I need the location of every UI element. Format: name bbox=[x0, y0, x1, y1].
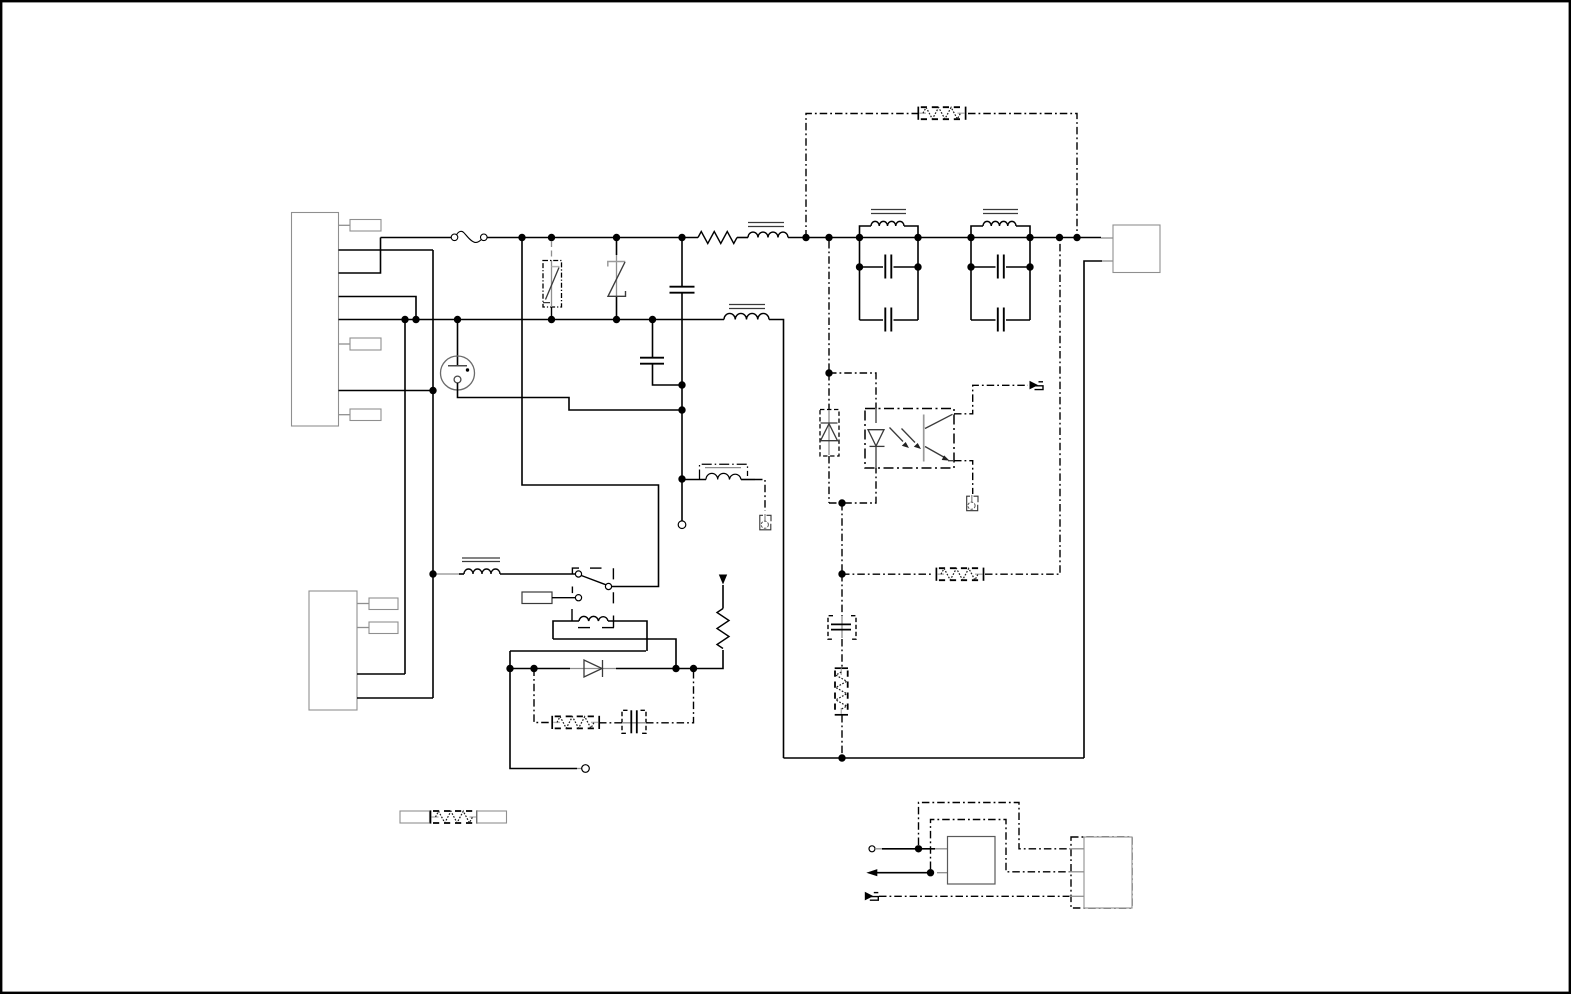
node dot on bottom rail bbox=[838, 754, 845, 761]
wire vertical x510 down to terminal bbox=[510, 651, 577, 769]
node dot opto branch bbox=[825, 369, 832, 376]
inductor L3 (relay feed, with core) bbox=[436, 558, 576, 574]
module M1 box bbox=[948, 837, 996, 885]
dash-dot bypass (top) bbox=[806, 114, 919, 238]
node dots on L bus bbox=[518, 234, 1080, 241]
U1 light arrows bbox=[890, 428, 922, 450]
dash-dot path A (E3 node loop to CN4 pin1) bbox=[919, 803, 1071, 849]
wire L bus (top line y=237.5) bbox=[487, 237, 698, 239]
resistor R1 (in dashed box, top bypass) bbox=[918, 107, 965, 120]
dash-dot U1 emitter to pin symbol bbox=[954, 461, 973, 494]
resistor (inline on L bus) bbox=[698, 232, 737, 244]
connector CN2 (lower-left block) bbox=[309, 591, 357, 710]
capacitor C2 (N to node) bbox=[640, 320, 682, 386]
plug arrow symbol P4 (bottom left) bbox=[865, 892, 879, 901]
CN1 pin 8 tab bbox=[339, 409, 382, 421]
plug arrow symbol P2 bbox=[1030, 381, 1044, 390]
relay K1 coil label box bbox=[522, 592, 552, 604]
resistor R2 (vertical, arrow fed) bbox=[717, 575, 729, 649]
wire CN2 pin3 to vertical x405 bbox=[357, 673, 405, 675]
node dot relay feed at x433 bbox=[429, 570, 436, 577]
wire N bus (y=319.5) bbox=[339, 319, 725, 321]
snubber branch: dash-dot from diode line bbox=[534, 669, 550, 723]
resistor R3 (in dashed box) bbox=[552, 716, 599, 729]
optocoupler U1 box bbox=[865, 409, 954, 469]
dash-dot bypass (top, right half) bbox=[968, 114, 1077, 238]
CN1 pin 1 tab bbox=[339, 220, 382, 232]
resistor R4 (in dashed box) with dash-dot link to x1060 bbox=[842, 241, 1060, 581]
arrow lead (points left) bbox=[866, 869, 930, 876]
gray stubs into module M1 bbox=[935, 849, 948, 873]
dash-dot node down to R4 junction bbox=[841, 503, 843, 574]
dash-dot path B (arrow node loop to CN4 pin2) bbox=[931, 820, 1071, 872]
wire CN3 pin2 down right side to bottom rail bbox=[1084, 261, 1102, 758]
node dots on N bus bbox=[401, 316, 656, 323]
TVS Z1 (bidirectional zener) bbox=[608, 238, 626, 320]
diode D1 line bbox=[510, 650, 723, 677]
wire CN1 pin4 down to N bus bbox=[339, 297, 417, 320]
varistor RV1 bbox=[543, 241, 562, 320]
wire vertical x405 (N bus to CN2) bbox=[404, 320, 406, 675]
wire E3 to module M1 bbox=[882, 848, 935, 850]
wire CN1 pin2 to node x433 bbox=[339, 249, 434, 251]
isolated resistor R6 (bottom left) bbox=[400, 810, 507, 823]
connector pin symbol P1 (below T1) bbox=[760, 514, 771, 530]
inductor L2 (N line, with core) bbox=[724, 305, 769, 320]
wire CN1 pin3 up to line switch feed bbox=[339, 238, 381, 274]
capacitor C1 (X-cap on bus) bbox=[670, 238, 695, 522]
dash-dot U1 collector to plug arrow bbox=[954, 385, 1028, 414]
filter FL2 capacitors bbox=[967, 238, 1033, 332]
dash link R3 to C3 bbox=[599, 722, 622, 724]
filter FL1 choke (over L bus) bbox=[860, 210, 919, 238]
capacitor C4 (in dashed box) bbox=[828, 616, 856, 640]
relay K1 contact bbox=[572, 568, 613, 613]
node dot CN1 pin7 at x433 bbox=[429, 387, 436, 394]
transformer T1 (current transformer on C1 line) bbox=[682, 464, 765, 511]
filter FL1 capacitors bbox=[856, 238, 922, 332]
wire vertical x433 (CN1 pin2 down to CN2) bbox=[432, 250, 434, 698]
filter FL2 choke (over L bus) bbox=[971, 210, 1030, 238]
bottom rail bbox=[784, 757, 1085, 759]
dash-dot branch over to opto LED bbox=[829, 373, 876, 409]
zener Z2 (in dashed box) bbox=[820, 373, 839, 503]
dash-dot path C (P4 to CN4 pin3) bbox=[879, 895, 1070, 897]
dash-dot node down to C4 bbox=[841, 574, 843, 616]
relay K1 coil and body bbox=[510, 609, 676, 669]
wire from L2 down right side to bottom rail bbox=[769, 320, 784, 759]
connector CN1 (upper-left block) bbox=[292, 213, 339, 427]
dash-dot C4 to R5 bbox=[841, 639, 843, 668]
wire L bus between resistor and L1 bbox=[737, 237, 748, 239]
CN2 pin 1 tab bbox=[357, 598, 398, 610]
wire L bus right of L1 bbox=[788, 237, 1101, 239]
U1 phototransistor bbox=[924, 414, 954, 461]
terminal E2 (open circle) bbox=[577, 765, 589, 773]
capacitor C3 (in dashed box) bbox=[622, 710, 648, 733]
dash-dot R5 to bottom rail bbox=[841, 715, 843, 758]
wire vertical x522 (L bus down, over to relay contact) bbox=[522, 238, 659, 587]
resistor R5 (vertical, in dashed box) bbox=[835, 668, 848, 715]
bottom sub-circuit: terminal E3 bbox=[869, 846, 882, 852]
dash-dot lower opto chain node bbox=[829, 468, 876, 503]
node dots bottom sub-circuit bbox=[915, 845, 934, 876]
connector CN4 (bottom right, dash-dot outline) bbox=[1069, 837, 1132, 908]
connector CN3 (right of L bus) bbox=[1101, 225, 1160, 273]
U1 LED bbox=[868, 409, 885, 469]
neon lamp NE1 bbox=[441, 320, 683, 411]
wire CN1 pin7 to node x433 bbox=[339, 390, 434, 392]
connector pin symbol P3 bbox=[967, 495, 978, 511]
terminal E1 (open circle below C1 line) bbox=[678, 521, 686, 529]
node dots on diode line bbox=[506, 665, 697, 672]
inductor L1 (with core) bbox=[748, 223, 788, 238]
dash-dot from L bus down to opto branch node bbox=[828, 241, 830, 373]
node dots on C1 vertical bbox=[678, 381, 685, 482]
wire label box to NC contact bbox=[552, 597, 575, 599]
dash-dot C3 back to diode line bbox=[646, 669, 694, 723]
wire CN2 pin4 to vertical x433 bbox=[357, 697, 433, 699]
CN2 pin 2 tab bbox=[357, 622, 398, 634]
CN1 pin 6 tab bbox=[339, 338, 382, 350]
switch SW1 bbox=[381, 231, 488, 242]
